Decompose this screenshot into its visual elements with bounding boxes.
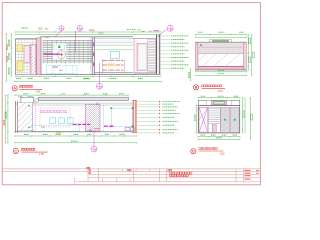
svg-text:1000: 1000 bbox=[89, 29, 95, 32]
svg-text:1:50: 1:50 bbox=[219, 151, 225, 155]
svg-text:1:50: 1:50 bbox=[39, 152, 45, 156]
svg-text:200: 200 bbox=[38, 28, 43, 31]
svg-text:1:50: 1:50 bbox=[218, 89, 224, 93]
svg-text:C: C bbox=[14, 149, 17, 153]
svg-text:1:50: 1:50 bbox=[35, 89, 41, 93]
svg-text:A: A bbox=[13, 87, 16, 91]
svg-text:D: D bbox=[192, 150, 195, 154]
svg-text:B: B bbox=[195, 86, 198, 90]
